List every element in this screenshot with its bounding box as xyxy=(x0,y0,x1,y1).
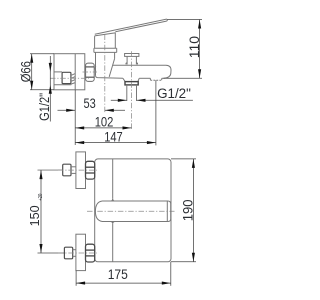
svg-text:150: 150 xyxy=(28,205,42,226)
svg-text:175: 175 xyxy=(108,267,128,282)
svg-text:190: 190 xyxy=(181,200,196,222)
svg-text:147: 147 xyxy=(104,129,123,144)
svg-text:53: 53 xyxy=(84,96,96,111)
svg-text:+20: +20 xyxy=(38,194,44,201)
svg-text:G1/2": G1/2" xyxy=(157,86,191,101)
svg-text:G1/2": G1/2" xyxy=(37,93,52,121)
svg-text:110: 110 xyxy=(187,36,202,58)
svg-text:Ø66: Ø66 xyxy=(18,61,33,82)
svg-text:102: 102 xyxy=(95,115,114,130)
